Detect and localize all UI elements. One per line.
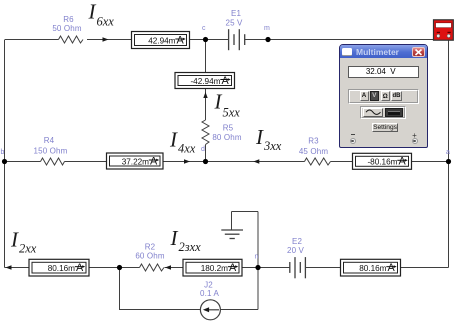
current arrow I5 (up) [203,92,207,98]
svg-text:50 Ohm: 50 Ohm [52,24,82,33]
wire middle row node b to R4 [5,161,41,163]
svg-text:d: d [201,146,205,153]
multimeter window [339,44,428,148]
svg-text:m: m [264,25,270,32]
wire R5 to node d [205,145,207,162]
close button [412,47,425,58]
resistor R4 [41,158,65,165]
wire node d to R3 [206,161,305,163]
svg-text:80.16m: 80.16m [48,264,75,273]
svg-text:R6: R6 [63,15,74,24]
resistor R5 vertical [202,120,209,145]
junction J2 loop [117,265,122,270]
svg-text:42.94m: 42.94m [148,36,175,45]
settings button [372,123,398,132]
wire bottom right corner [401,267,449,269]
svg-text:A: A [177,34,185,46]
title bar [340,45,427,58]
wire top row left (to R6) [5,39,59,41]
svg-text:60 Ohm: 60 Ohm [135,252,165,261]
svg-text:I5xx: I5xx [214,90,241,120]
node a [446,159,451,164]
svg-text:45 Ohm: 45 Ohm [299,147,329,156]
wire right vertical (node a to bottom) [448,162,450,268]
svg-text:150 Ohm: 150 Ohm [34,147,68,156]
svg-text:E1: E1 [231,9,241,18]
node c [203,37,208,42]
svg-text:80.16m: 80.16m [359,264,386,273]
ammeter 180.2mA [183,259,242,276]
wire ground branch horizontal [232,211,259,213]
svg-text:c: c [202,25,206,32]
svg-text:I3xx: I3xx [255,125,282,153]
current arrow I23 (left) [165,265,171,269]
wire J2 loop right up to node n [257,268,259,310]
svg-text:A: A [399,156,407,168]
ammeter -42.94mA [175,73,235,89]
terminal minus [351,134,356,135]
svg-text:R3: R3 [308,137,319,146]
svg-text:A: A [76,262,84,274]
mode buttons group [348,89,420,104]
wire node n up (ground branch vertical) [257,212,259,268]
button A [360,91,369,101]
svg-text:R4: R4 [44,136,55,145]
battery E2 [290,257,306,278]
current source J2 [200,300,220,320]
node d [203,159,208,164]
svg-text:n: n [255,254,259,261]
svg-text:80 Ohm: 80 Ohm [212,133,242,142]
wire R3 to ammeter -80.16 [331,161,353,163]
current arrow I6 (right) [103,37,109,41]
wire ammeter 80.16 to junction [89,267,120,269]
svg-text:-42.94m: -42.94m [190,77,220,86]
wire ammeter 180.2 to node n [242,267,258,269]
node m [265,37,270,42]
resistor R6 [59,36,84,43]
wire junction to R2 [120,267,140,269]
svg-text:I6xx: I6xx [88,0,115,28]
ammeter 80.16mA bottom-left [29,259,89,276]
terminal plus [411,131,418,140]
svg-text:I2зxx: I2зxx [170,226,202,254]
ammeter 80.16mA bottom-right [341,259,401,276]
wire node n to E2 [258,267,290,269]
ammeter -80.16mA [353,153,412,169]
wire bottom left corner [5,267,30,269]
svg-text:I2xx: I2xx [10,228,37,256]
node b [2,159,7,164]
wire R4 to ammeter 37.22 [65,161,107,163]
wire E1 to node m [245,39,268,41]
button dB [391,91,402,101]
button sine [363,108,383,117]
svg-text:A: A [388,262,396,274]
wire ammeter 37.22 to node d [163,161,206,163]
wire ammeter -80.16 to node a [412,161,449,163]
display 32.04 V [348,66,420,78]
wire node c down to ammeter -42.94 [205,40,207,73]
svg-text:E2: E2 [292,237,302,246]
svg-text:20 V: 20 V [287,246,305,255]
battery E1 [229,29,245,50]
svg-text:R2: R2 [145,243,156,252]
svg-text:25 V: 25 V [225,19,243,28]
svg-text:A: A [150,155,158,167]
button Ohm [381,91,391,101]
wire ammeter -42.94 down to R5 [205,89,207,121]
multimeter icon XMM [434,20,454,40]
ammeter 42.94mA [132,32,190,49]
wire ammeter to node c [190,39,206,41]
ammeter 37.22mA [107,153,164,169]
wire node c to E1 [206,39,229,41]
svg-text:R5: R5 [223,124,234,133]
svg-text:A: A [229,262,237,274]
node n [255,265,260,270]
wire node m to multimeter icon [268,39,434,41]
current arrow I2 (left) [6,265,12,269]
svg-text:-80.16m: -80.16m [367,158,397,167]
svg-text:I4xx: I4xx [169,128,196,156]
resistor R3 [305,158,331,165]
current arrow I3 (left) [253,159,259,163]
svg-text:0.1 A: 0.1 A [200,289,220,298]
ground [221,230,243,239]
wire J2 loop bottom right [221,309,259,311]
wire E2 to bottom-right ammeter [306,267,341,269]
wire junction down to J2 loop [119,268,121,311]
resistor R2 [140,264,165,271]
wire J2 loop bottom left [120,309,201,311]
svg-text:180.2m: 180.2m [201,264,228,273]
svg-text:A: A [222,75,230,87]
current arrow I4 (right) [184,159,190,163]
waveform buttons group [360,106,406,119]
button V pressed [370,91,380,101]
wire ground stem [231,212,233,231]
svg-text:37.22m: 37.22m [122,157,149,166]
wire R2 to ammeter 180.2 [165,267,184,269]
wire left vertical b-column [4,40,6,268]
wire right vertical (multimeter to node a) [448,40,450,162]
svg-text:b: b [1,149,5,156]
button DC pressed [385,108,403,117]
wire R6 to ammeter [87,39,132,41]
svg-text:a: a [446,149,450,156]
